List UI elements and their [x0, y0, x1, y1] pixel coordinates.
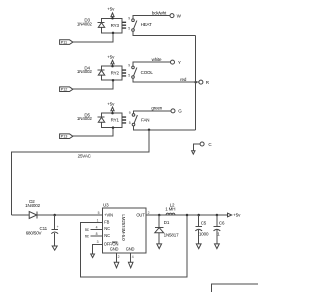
wire COOL top contact to terminal Y — [133, 57, 171, 66]
svg-text:NC: NC — [104, 226, 110, 231]
terminal C — [200, 142, 212, 147]
svg-text:C6: C6 — [219, 221, 225, 226]
pin 4 GND stub right — [128, 253, 133, 268]
svg-text:GND: GND — [126, 247, 135, 252]
svg-text:bck/wht: bck/wht — [152, 10, 167, 15]
svg-text:+5v: +5v — [107, 54, 115, 59]
svg-text:FB: FB — [104, 219, 109, 224]
svg-text:5: 5 — [98, 211, 100, 215]
svg-text:red: red — [180, 77, 187, 82]
svg-text:+5v: +5v — [233, 213, 241, 218]
svg-text:Y: Y — [178, 60, 181, 65]
svg-text:1N4002: 1N4002 — [77, 69, 93, 74]
diode D3 1N4002 — [77, 18, 105, 28]
capacitor C6 1 — [214, 214, 225, 244]
svg-text:FAN: FAN — [141, 118, 149, 123]
switch contacts FAN — [129, 111, 150, 126]
ground (OFF/ON) — [91, 254, 95, 258]
wire COOL bottom contact to node R — [133, 77, 197, 83]
svg-text:white: white — [152, 57, 162, 62]
svg-text:4: 4 — [96, 225, 98, 229]
svg-text:1N4002: 1N4002 — [25, 203, 41, 208]
svg-text:1 MH: 1 MH — [165, 207, 175, 212]
svg-text:OUT: OUT — [136, 213, 145, 218]
terminal R — [196, 80, 210, 85]
wire HEAT bottom contact to bus — [133, 31, 196, 35]
svg-text:3: 3 — [97, 240, 99, 244]
svg-text:2: 2 — [118, 255, 120, 259]
svg-text:5: 5 — [128, 73, 130, 77]
relay RY2 coil arcs — [122, 70, 126, 76]
svg-text:+5v: +5v — [107, 101, 115, 106]
switch contacts COOL — [128, 64, 153, 79]
svg-text:HEAT: HEAT — [141, 22, 152, 27]
svg-text:LM2574M-5.0: LM2574M-5.0 — [121, 214, 126, 241]
+5v supply (relay RY3) — [107, 6, 115, 18]
wire FAN top contact to terminal G — [134, 106, 172, 114]
wire D2 to +VIN — [37, 214, 103, 217]
svg-text:NC: NC — [104, 233, 110, 238]
terminal W — [170, 13, 182, 18]
wire relay RY3 coil to P11 — [73, 17, 114, 42]
relay RY2 coil box — [102, 66, 122, 80]
svg-text:+VIN: +VIN — [104, 213, 113, 218]
svg-text:U3: U3 — [103, 202, 109, 207]
svg-text:P13: P13 — [61, 135, 67, 139]
svg-text:green: green — [151, 106, 162, 111]
wire HEAT top contact to terminal W — [133, 10, 170, 19]
capacitor C11 680/50V — [26, 215, 59, 246]
svg-text:9: 9 — [128, 64, 130, 68]
svg-text:COOL: COOL — [141, 70, 154, 75]
connector P12 — [60, 87, 73, 92]
svg-text:4: 4 — [132, 255, 134, 259]
svg-text:+: + — [57, 225, 59, 229]
svg-text:1000: 1000 — [199, 232, 209, 237]
svg-text:1N4002: 1N4002 — [77, 116, 93, 121]
pin 4 NC stub — [85, 225, 103, 231]
svg-text:9: 9 — [128, 17, 130, 21]
pin 2 GND stub left — [114, 253, 119, 268]
svg-text:nc: nc — [85, 227, 89, 232]
diode D4 1N4002 — [77, 65, 105, 75]
svg-text:680/50V: 680/50V — [26, 230, 42, 235]
pin 2 OUT wire — [146, 211, 227, 215]
ground (C6) — [215, 244, 220, 249]
svg-text:RY1: RY1 — [111, 118, 120, 123]
terminal Y — [171, 60, 181, 65]
svg-text:+5v: +5v — [107, 6, 115, 11]
+5v supply (relay RY1) — [107, 101, 115, 113]
relay RY1 coil box — [102, 113, 122, 128]
pin 5 number (+VIN) — [98, 211, 100, 215]
svg-text:C5: C5 — [201, 221, 207, 226]
switch contacts HEAT — [128, 17, 152, 32]
pin 1 FB wire loop to output — [80, 215, 187, 277]
capacitor C5 1000 — [195, 214, 209, 244]
diode D2 1N4002 — [11, 199, 40, 218]
connector P11 — [60, 40, 73, 45]
svg-text:5: 5 — [129, 121, 131, 125]
pin 3 OFF/ON wire — [93, 240, 103, 254]
svg-text:1N5817: 1N5817 — [164, 232, 180, 237]
svg-text:1N4002: 1N4002 — [77, 21, 93, 26]
inductor L2 1 MH — [165, 202, 175, 215]
svg-text:nc: nc — [85, 234, 89, 239]
ground (C11) — [52, 246, 57, 250]
svg-text:1: 1 — [97, 218, 99, 222]
bottom right sheet box corner — [212, 284, 258, 292]
ground (D1) — [157, 244, 162, 249]
wire relay RY1 coil to P13 — [73, 112, 114, 136]
diode D5 1N4002 — [77, 112, 105, 122]
wire 25VAC feed — [11, 130, 149, 215]
+5v output arrow — [228, 213, 242, 218]
op-amp U1 regulator U3 LM2574M-5.0 — [103, 202, 146, 252]
svg-text:2: 2 — [148, 211, 150, 215]
svg-text:8: 8 — [96, 232, 98, 236]
relay RY3 coil box — [102, 18, 122, 33]
pin 8 NC stub — [85, 232, 103, 238]
wire terminal C to common arrow — [192, 144, 201, 154]
connector P13 — [60, 134, 73, 139]
svg-text:P11: P11 — [61, 41, 67, 45]
svg-text:P12: P12 — [61, 88, 67, 92]
terminal G — [171, 109, 182, 114]
node FB junction — [186, 214, 189, 217]
ground (C5) — [196, 244, 201, 249]
diode D1 1N5817 — [155, 214, 179, 244]
svg-text:25VAC: 25VAC — [78, 153, 92, 158]
svg-text:GND: GND — [110, 247, 119, 252]
+5v supply (relay RY2) — [107, 54, 115, 66]
wire right bus (relay contacts common) — [195, 36, 197, 130]
relay RY3 coil arcs — [122, 22, 126, 28]
wire FAN bottom contact to bus — [134, 126, 196, 131]
svg-text:RY2: RY2 — [111, 70, 120, 75]
svg-text:D1: D1 — [164, 220, 170, 225]
svg-text:9: 9 — [129, 111, 131, 115]
wire relay RY2 coil to P12 — [73, 65, 114, 89]
svg-text:5: 5 — [128, 26, 130, 30]
relay RY1 coil arcs — [122, 117, 126, 123]
svg-text:RY3: RY3 — [111, 23, 120, 28]
